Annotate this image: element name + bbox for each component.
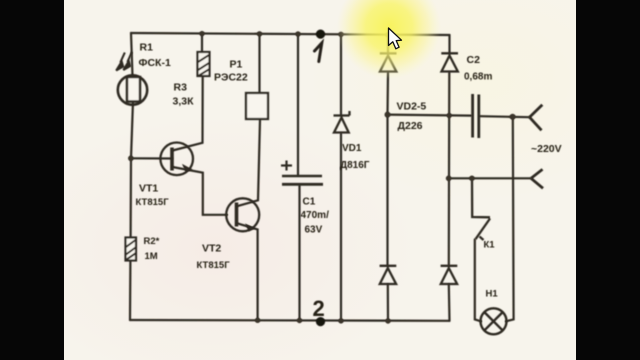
junction node: top rail at C1 [295,31,300,36]
photoresistor R1 [118,75,147,104]
junction node: top rail at VD1 [338,32,343,37]
node label 1 [315,43,322,62]
wire: C1 column bottom [298,186,300,321]
left letterbox bar [0,0,64,360]
bridge diode VD2 (upper left) [380,53,397,71]
junction node: bottom rail at bridge left [385,318,390,323]
right letterbox bar [576,0,640,360]
wire: C1 column top [297,34,299,175]
wire: bridge right column bottom to rail corner [448,285,451,321]
wire: bridge right column top corner [448,35,450,53]
wire: P1 coil bottom to VT2 collector [237,120,260,207]
wire: VT1 base lead [131,157,172,159]
junction node: bridge AC right crossing [447,113,452,118]
svg-text:VD1: VD1 [342,143,362,154]
transistor VT1 [160,143,193,176]
svg-text:R1: R1 [140,42,154,54]
junction node: K1 contact top [469,176,475,182]
lamp H1 [481,308,507,334]
C1 plus sign [281,161,292,171]
svg-text:Д226: Д226 [398,120,423,132]
junction node: top rail at R3 [199,31,204,36]
capacitor C1 plates [282,176,323,184]
svg-text:63V: 63V [305,225,323,236]
wire: bridge left column top (node under cursor) [387,35,389,53]
svg-text:~220V: ~220V [531,143,562,155]
svg-text:470m/: 470m/ [301,210,330,221]
junction node: bridge AC left [385,112,391,118]
wire: bridge left column bottom [387,285,389,322]
wire: R3 bottom to VT1 collector [173,76,203,151]
wire: bridge AC node to C2 [388,115,472,116]
capacitor C2 plates [473,94,479,138]
wire: left column R1 bottom to VT1 base node [131,101,133,238]
svg-text:3,3К: 3,3К [173,96,195,108]
junction node: top rail at bridge left [385,32,390,37]
wire: left column upper (corner to R1 top) [131,33,133,76]
junction node: top rail at P1 [257,31,262,36]
svg-text:C2: C2 [467,54,481,66]
svg-text:VD2-5: VD2-5 [397,101,427,113]
wire: VT2 emitter down to bottom rail [237,223,258,320]
svg-text:C1: C1 [303,197,316,208]
wire: VD1 bottom to bottom rail [340,134,342,321]
svg-text:Д816Г: Д816Г [340,160,370,171]
svg-text:КТ815Г: КТ815Г [197,260,231,271]
wire: top rail from node A to right corner [131,33,450,35]
svg-text:VT1: VT1 [139,183,158,195]
junction node: bottom rail at VD1 [338,318,343,323]
light arrows into R1 [116,52,132,71]
svg-text:VT2: VT2 [202,243,221,255]
junction node: VT1 base at left column [128,156,134,162]
svg-text:R3: R3 [174,82,188,94]
svg-text:2: 2 [313,296,325,321]
resistor R3 body [198,52,210,76]
cursor highlight glow [337,0,441,79]
relay coil P1 [246,93,268,119]
junction node: bottom rail at VT2 [255,318,260,323]
svg-text:ФСК-1: ФСК-1 [139,57,171,69]
svg-text:Р1: Р1 [230,59,243,71]
wire: left column R2 bottom to bottom rail [129,261,132,321]
terminal node 1 (bold) [316,29,325,38]
svg-text:РЭС22: РЭС22 [214,72,248,84]
svg-text:0,68m: 0,68m [464,72,492,83]
junction node: bottom rail at C1 [297,318,302,323]
junction node: C2 output [510,114,516,120]
wire: K1 contact lower lead down to lamp [475,240,481,322]
wire: R3 top connection [201,34,203,52]
paper background [64,0,576,360]
wire: P1 coil top [258,34,260,93]
wire: bridge right column mid [448,73,451,265]
mouse cursor [389,28,402,49]
svg-text:Н1: Н1 [486,289,499,300]
wire: bridge left column mid [386,73,389,266]
wire: C2 to mains fork 1 [480,116,530,117]
wire: lamp right column up to C2 output node [506,117,514,322]
mains fork terminal 2 [531,169,543,188]
junction node: K1 rail left [446,176,452,182]
transistor VT2 [226,198,259,231]
svg-text:КТ815Г: КТ815Г [136,197,170,208]
svg-text:К1: К1 [484,240,496,251]
terminal node 2 (bold) [316,317,325,326]
resistor R2 body [126,238,137,261]
zener diode VD1 [334,111,350,133]
wire: VD1 column [340,34,342,115]
wire: K1 rail to mains fork 2 [449,177,531,179]
wire: bottom rail [130,319,450,322]
relay contact K1 [472,178,490,240]
svg-text:R2*: R2* [144,236,160,247]
bridge diode VD3 (upper right) [441,53,458,71]
mains fork terminal 1 [530,105,543,131]
wire: VT1 emitter to VT2 base [173,167,228,215]
svg-text:1М: 1М [145,251,158,262]
bridge diode VD4 (lower left) [380,266,397,284]
bridge diode VD5 (lower right) [441,266,458,284]
